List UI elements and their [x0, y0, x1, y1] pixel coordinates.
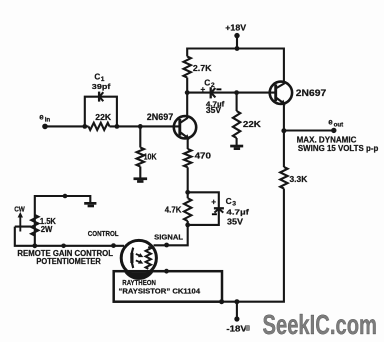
wire +18V stub: [236, 36, 238, 49]
node 10K junction: [138, 124, 143, 129]
resistor R 22K series: [89, 113, 112, 130]
node box top junction: [164, 269, 169, 274]
wire 3.3K to bottom rail: [221, 189, 284, 302]
svg-text:CONTROL: CONTROL: [88, 229, 119, 238]
wire C1 bridge: [85, 97, 117, 127]
watermark SeekIC.com: [246, 309, 378, 340]
wiper arm with CW arrow: [14, 205, 31, 232]
wire rail to 2.7K: [186, 48, 188, 57]
node C3 top junction: [185, 190, 190, 195]
svg-text:+18V: +18V: [225, 24, 247, 33]
ground for 10K: [134, 177, 148, 182]
capacitor C3 4.7uf 35V: [211, 196, 249, 227]
node e_out terminal: [328, 117, 343, 133]
wire signal drop: [154, 221, 188, 245]
node pot top junction: [63, 194, 68, 199]
capacitor C2 4.7uf 35V: [201, 78, 225, 116]
svg-text:22K: 22K: [243, 119, 261, 129]
svg-text:4.7K: 4.7K: [165, 204, 182, 214]
wire pot top line: [35, 196, 91, 246]
box Raytheon Raysistor CK1104: [114, 271, 222, 302]
svg-text:e: e: [328, 117, 333, 126]
wire to 22K: [236, 93, 238, 111]
wire output: [284, 129, 334, 131]
svg-text:35V: 35V: [206, 106, 222, 115]
svg-text:35V: 35V: [227, 218, 244, 227]
node pot bottom junction: [32, 243, 37, 248]
node +18V supply terminal: [225, 24, 247, 39]
resistor R 3.3K: [280, 167, 307, 189]
svg-text:470: 470: [195, 150, 212, 160]
node -18V terminal: [226, 316, 247, 333]
raysistor photocell unit: [121, 240, 156, 279]
wire Q1 emitter to 470: [187, 138, 189, 149]
svg-text:4.7µf: 4.7µf: [226, 208, 249, 217]
svg-text:2N697: 2N697: [296, 88, 326, 98]
ground for pot: [84, 202, 96, 207]
node C3 bottom junction: [185, 223, 190, 228]
node output junction: [281, 128, 286, 133]
node top rail junction: [235, 46, 240, 51]
svg-text:10K: 10K: [144, 153, 157, 162]
svg-text:+: +: [201, 85, 206, 94]
svg-text:RAYTHEON: RAYTHEON: [122, 278, 156, 287]
wire input to 22K: [45, 125, 89, 127]
svg-text:SWING 15 VOLTS p-p: SWING 15 VOLTS p-p: [298, 144, 379, 153]
wire -18V stub: [236, 302, 238, 319]
svg-text:C: C: [94, 72, 100, 81]
node signal junction: [164, 243, 169, 248]
svg-text:-18V: -18V: [226, 325, 247, 334]
svg-text:2W: 2W: [41, 225, 53, 234]
capacitor C1 39pf: [92, 72, 111, 101]
transistor Q2 2N697: [270, 82, 327, 106]
svg-text:e: e: [39, 113, 44, 122]
node e_in terminal: [39, 113, 50, 130]
svg-text:CW: CW: [14, 205, 25, 214]
resistor R 22K bias: [233, 111, 261, 138]
potentiometer R 1.5K 2W: [31, 215, 56, 236]
wire Q2 emitter drop: [283, 104, 285, 131]
wire top rail: [187, 47, 284, 49]
wire 2.7K to collector node: [186, 78, 188, 93]
wire output node to 3.3K: [283, 131, 285, 167]
wire 470 to signal node: [187, 167, 189, 198]
label max dynamic swing: [297, 135, 379, 153]
svg-text:3.3K: 3.3K: [290, 174, 308, 184]
svg-text:2N697: 2N697: [147, 112, 173, 122]
node -18V junction: [234, 299, 239, 304]
resistor R 470: [184, 149, 211, 167]
node control line junction: [61, 244, 66, 249]
wire Q2 collector drop: [276, 48, 284, 89]
wire 22K to ground: [236, 138, 238, 145]
svg-text:SIGNAL: SIGNAL: [154, 233, 183, 242]
node 22K junction: [234, 90, 239, 95]
svg-text:“RAYSISTOR” CK1104: “RAYSISTOR” CK1104: [119, 287, 201, 296]
svg-text:2: 2: [211, 82, 215, 89]
resistor R 10K: [137, 148, 157, 167]
node Q1 collector junction: [185, 90, 190, 95]
svg-text:3: 3: [232, 201, 236, 208]
wire 22K to Q1 base: [110, 125, 180, 127]
resistor R 4.7K: [165, 198, 192, 221]
wire interstage line: [187, 92, 276, 94]
wire wiper loop: [15, 227, 124, 246]
svg-text:+: +: [211, 197, 216, 206]
svg-text:22K: 22K: [95, 113, 111, 122]
svg-text:POTENTIOMETER: POTENTIOMETER: [36, 257, 101, 266]
node C1 bridge left: [82, 124, 87, 129]
transistor Q1 2N697: [147, 93, 196, 140]
wire C3 bridge: [188, 192, 219, 225]
node control at raysistor: [111, 243, 116, 248]
resistor R 2.7K: [184, 57, 212, 78]
svg-text:39pf: 39pf: [92, 82, 111, 91]
label remote gain control potentiometer: [17, 249, 113, 266]
node C1 bridge right: [115, 124, 120, 129]
svg-text:in: in: [45, 117, 51, 124]
ground for 22K: [230, 145, 243, 150]
svg-text:out: out: [334, 122, 344, 129]
svg-text:SeekIC.com: SeekIC.com: [263, 309, 378, 340]
svg-text:C: C: [226, 196, 232, 206]
node box bottom right junction: [219, 299, 224, 304]
wire 10K to ground: [139, 167, 141, 178]
wire to 10K: [139, 126, 141, 147]
svg-text:2.7K: 2.7K: [193, 63, 212, 73]
